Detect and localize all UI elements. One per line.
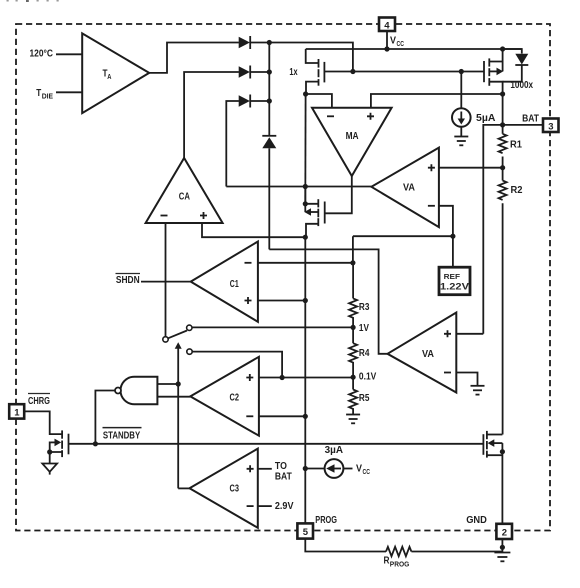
wire VA2 minus to ground	[456, 373, 477, 386]
svg-text:MA: MA	[346, 130, 359, 142]
svg-text:1V: 1V	[359, 322, 369, 334]
node BAT	[500, 122, 505, 127]
svg-text:R1: R1	[510, 139, 522, 151]
transistor Q1 NMOS (series, in PROG column)	[304, 187, 324, 238]
cropped text remnants top edge	[7, 0, 59, 2]
switch S2 contact	[187, 349, 192, 354]
resistor R3	[349, 263, 369, 318]
svg-text:BAT: BAT	[275, 471, 292, 483]
svg-text:V: V	[356, 463, 362, 475]
wire C2 minus to PROG	[259, 415, 305, 417]
wire TA output to D1	[149, 43, 239, 73]
transistor Q3 NMOS (BAT disconnect)	[483, 431, 502, 524]
svg-text:GND: GND	[466, 514, 487, 526]
transistor Q2 NMOS open-drain	[50, 430, 69, 463]
svg-text:CHRG: CHRG	[28, 395, 50, 407]
svg-text:PROG: PROG	[390, 560, 410, 569]
resistor R2	[499, 181, 523, 200]
pin 5 PROG	[297, 523, 313, 538]
wire PROG column upper	[304, 94, 306, 204]
comparator C1 (points left)	[191, 242, 258, 322]
transistor M1 power PMOS 1000x	[461, 49, 503, 94]
node D1 cathode	[267, 40, 272, 45]
node D2 cathode	[267, 69, 272, 74]
svg-text:3µA: 3µA	[325, 444, 344, 456]
wire RPROG to GND node	[411, 551, 502, 553]
node 1x drain / PROG column top	[303, 91, 308, 96]
svg-text:R4: R4	[359, 347, 370, 359]
wire C3 plus stub	[258, 468, 272, 470]
svg-text:C1: C1	[230, 278, 239, 290]
node VCC/pin4	[384, 46, 389, 51]
wire STANDBY row (Q2 gate to Q3 gate)	[69, 443, 484, 445]
svg-text:5: 5	[303, 527, 309, 538]
transistor 1x PMOS mirror	[306, 49, 353, 94]
wire TDIE input	[56, 91, 82, 93]
op-amp VA2 (points left)	[388, 313, 457, 393]
wire SHDN to C1 output	[141, 281, 191, 283]
wire S2 contact to 0.1V row	[192, 352, 282, 378]
wire VA1 output row	[226, 186, 371, 188]
node 5uA gate row	[459, 69, 464, 74]
wire MA minus input to 1x drain	[306, 94, 332, 108]
wire BAT sense branch to VA2 plus	[483, 125, 502, 334]
diode D3	[239, 95, 270, 108]
wire pin2 to ground	[501, 539, 503, 553]
op-amp VA1 (voltage amp, points left)	[371, 148, 439, 228]
svg-text:4: 4	[384, 20, 390, 31]
label VCC at 3uA	[356, 463, 370, 477]
op-amp CA (current amp)	[146, 158, 223, 223]
node C2 plus / switch S2	[280, 375, 285, 380]
svg-text:VA: VA	[403, 182, 415, 194]
wire CA output to D2	[184, 72, 239, 158]
node NAND input / switch common	[176, 381, 181, 386]
wire NAND output to Q2 gate	[95, 391, 115, 444]
node 3uA / PROG	[303, 466, 308, 471]
current source 3uA	[305, 459, 352, 478]
svg-text:CC: CC	[397, 39, 405, 48]
wire pin1 to Q2 drain	[24, 411, 62, 434]
ground triangle below Q2	[42, 464, 57, 475]
svg-text:STANDBY: STANDBY	[103, 430, 140, 442]
ground below 5uA	[454, 137, 468, 146]
pin 3 BAT	[543, 119, 559, 133]
ground main	[494, 553, 510, 562]
wire VCC rail	[306, 48, 522, 50]
wire C1 plus to PROG column	[258, 300, 305, 302]
node Q3 source/bulk	[500, 449, 505, 454]
diode D5 body diode	[503, 49, 529, 82]
node NAND out / STANDBY row	[93, 441, 98, 446]
svg-text:1.22V: 1.22V	[440, 282, 469, 292]
wire pin5 to RPROG	[305, 539, 386, 552]
svg-text:2: 2	[502, 527, 507, 538]
wire PROG column	[304, 237, 306, 523]
wire REF to C1 minus and R3	[258, 236, 353, 263]
node Q2 source/bulk	[47, 449, 52, 454]
svg-text:1x: 1x	[289, 66, 297, 78]
wire C2 plus to 0.1V tap	[259, 377, 353, 379]
svg-text:SHDN: SHDN	[116, 274, 140, 286]
svg-text:C3: C3	[230, 483, 240, 495]
svg-text:C2: C2	[230, 392, 240, 404]
svg-text:DIE: DIE	[42, 91, 53, 100]
pin 1 CHRG	[9, 404, 24, 418]
wire CA minus to switch S1	[165, 223, 167, 337]
NAND gate G1 (points left)	[115, 377, 178, 404]
svg-text:1: 1	[14, 407, 20, 418]
svg-text:CC: CC	[363, 467, 371, 476]
node C2 minus / PROG	[303, 414, 308, 419]
label SHDN (overline)	[116, 274, 141, 287]
pin 4 VCC	[379, 18, 395, 50]
wire VA2 plus lead	[456, 333, 483, 335]
wire REF net row	[353, 235, 453, 237]
svg-text:V: V	[390, 35, 396, 47]
svg-text:0.1V: 0.1V	[359, 370, 376, 382]
wire diode column	[268, 43, 270, 136]
label CHRG (overline)	[28, 394, 50, 408]
node C1 plus / PROG	[303, 298, 308, 303]
op-amp MA (current-mirror amp, points down)	[312, 108, 392, 176]
label STANDBY (overline)	[103, 428, 142, 442]
wire BAT to pin 3	[503, 124, 543, 126]
pin 2 GND	[496, 524, 512, 539]
wire MA plus input to BAT node	[371, 94, 503, 108]
node REF net	[450, 234, 455, 239]
node gate net corner	[350, 69, 355, 74]
node 0.1V tap	[352, 362, 354, 390]
svg-text:5µA: 5µA	[476, 112, 496, 124]
wire R2 bottom long column to Q3	[502, 203, 504, 434]
comparator C2 (points left)	[190, 357, 259, 436]
label VCC pin4	[390, 35, 404, 48]
wire D4 anode to VA2 output row	[269, 249, 387, 353]
wire CA plus to PROG node	[202, 223, 305, 237]
ground below R5	[346, 408, 360, 423]
svg-text:A: A	[107, 72, 111, 81]
resistor R1	[499, 134, 523, 153]
ground VA2 minus	[471, 386, 485, 395]
diode D1	[239, 36, 270, 49]
svg-text:REF: REF	[444, 272, 461, 281]
wire VA1 minus to REF net	[439, 206, 453, 236]
wire C3 output to switch common column	[178, 487, 189, 489]
REF 1.22V box	[439, 236, 470, 295]
comparator C3 (points left)	[190, 449, 258, 528]
diode D4 (cathode up, in diode column)	[262, 136, 276, 250]
wire gate net row	[353, 71, 461, 73]
label TO BAT	[275, 460, 292, 483]
resistor R5	[349, 390, 369, 409]
wire C3 minus stub	[258, 505, 272, 507]
svg-text:PROG: PROG	[315, 514, 337, 526]
svg-text:120°C: 120°C	[30, 48, 54, 60]
node CA plus / PROG	[303, 235, 308, 240]
switch common arrow	[175, 342, 182, 488]
current source 5uA	[452, 72, 471, 137]
svg-text:CA: CA	[179, 190, 191, 202]
wire MA output to Q1 gate	[325, 176, 352, 213]
svg-text:BAT: BAT	[522, 113, 539, 125]
wire S1 contact to 1V tap	[192, 326, 353, 328]
node M1 source VCC	[500, 46, 505, 51]
svg-text:R3: R3	[359, 301, 370, 313]
IC boundary dashed box	[16, 24, 550, 531]
node pin2 ground	[500, 545, 505, 550]
wire divider to VA1 plus	[439, 167, 503, 169]
svg-text:R2: R2	[511, 184, 523, 196]
node D3 cathode	[267, 98, 272, 103]
node 1V tap	[352, 317, 354, 343]
wire D3 anode from VA1 output row	[226, 101, 239, 187]
node M1 drain / MA plus	[500, 91, 505, 96]
svg-text:R5: R5	[359, 392, 370, 404]
switch S1	[163, 325, 192, 342]
svg-text:2.9V: 2.9V	[275, 500, 294, 512]
node VA1 output / PROG column	[303, 184, 308, 189]
svg-text:VA: VA	[422, 348, 434, 360]
node REF/R3/C1minus	[350, 260, 355, 265]
wire BAT column	[502, 94, 504, 134]
node Q1 source	[303, 201, 308, 206]
resistor R4	[349, 343, 369, 362]
wire 120C input	[56, 53, 82, 55]
svg-text:3: 3	[548, 121, 553, 132]
diode D2	[239, 66, 270, 79]
resistor RPROG	[384, 547, 412, 569]
wire C2 output to NAND input	[157, 396, 190, 398]
wire D1 row to gate-net corner	[269, 43, 353, 72]
node R1/R2 divider	[502, 157, 504, 181]
op-amp TA (thermal amp)	[82, 33, 149, 113]
label TDIE	[36, 87, 53, 100]
